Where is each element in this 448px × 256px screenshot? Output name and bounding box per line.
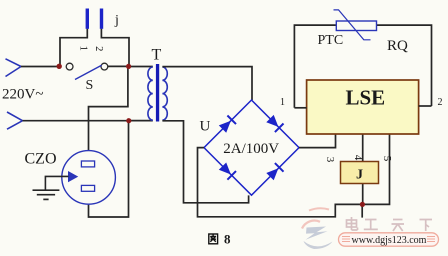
transformer T secondary coil xyxy=(162,67,167,120)
svg-text:LSE: LSE xyxy=(345,86,385,110)
watermark banner xyxy=(339,233,439,246)
switch S right terminal circle xyxy=(101,63,108,70)
wire PTC loop right xyxy=(377,25,432,106)
watermark char 天 xyxy=(392,220,405,232)
svg-text:RQ: RQ xyxy=(387,38,408,54)
svg-text:8: 8 xyxy=(224,232,231,247)
wire branch to socket top xyxy=(89,66,128,150)
wire LSE pin1 stub xyxy=(294,107,306,109)
ground bar 2 xyxy=(37,194,55,196)
svg-text:1: 1 xyxy=(280,97,285,108)
diode D2 xyxy=(266,115,278,127)
wire bridge left corner to bottom bus xyxy=(198,134,390,217)
node dot switch right junction xyxy=(126,64,131,69)
caption glyph 图 xyxy=(209,234,218,244)
node dot mains bottom xyxy=(126,118,131,123)
wire secondary top to bridge top xyxy=(162,67,252,100)
thermistor diagonal xyxy=(334,10,371,40)
watermark char 工 xyxy=(364,220,378,230)
svg-text:PTC: PTC xyxy=(318,33,344,48)
wire LSE pin2 stub xyxy=(419,105,432,107)
relay coil J box xyxy=(341,162,379,184)
wire socket bottom loop xyxy=(89,121,129,217)
svg-text:j: j xyxy=(114,13,119,28)
wire primary bottom to mains dot xyxy=(129,120,153,122)
node dot switch left xyxy=(57,64,62,69)
diode D1 xyxy=(219,121,231,133)
svg-text:J: J xyxy=(356,168,363,183)
svg-text:2: 2 xyxy=(438,97,443,108)
wire relay-contact loop left xyxy=(60,29,87,67)
ground bar 1 xyxy=(33,189,60,191)
wire bridge right corner to LSE pin3 xyxy=(299,134,336,148)
contact j right bar xyxy=(100,9,103,29)
wire mains bottom xyxy=(23,120,129,122)
watermark char 下 xyxy=(420,220,433,232)
socket slot bottom xyxy=(81,185,94,191)
diode D4 xyxy=(266,168,278,180)
bridge rectifier U diamond xyxy=(204,100,299,195)
svg-text:2A/100V: 2A/100V xyxy=(223,141,279,157)
terminal bottom-left input xyxy=(7,112,23,129)
socket left pin arrow xyxy=(69,172,78,182)
svg-text:3: 3 xyxy=(324,157,336,163)
watermark char 电 xyxy=(347,217,358,230)
transformer T primary coil xyxy=(148,67,153,120)
ground bar 3 xyxy=(43,198,48,200)
watermark swirl logo xyxy=(302,208,333,249)
transformer core xyxy=(156,64,159,122)
terminal top-left input xyxy=(6,59,22,77)
wire relay J to bus dot xyxy=(362,184,364,205)
wire stub below dot xyxy=(361,204,363,217)
svg-text:220V~: 220V~ xyxy=(2,87,43,103)
watermark banner deco right xyxy=(427,237,435,242)
watermark banner deco left xyxy=(342,237,350,242)
wire switch to junction xyxy=(108,65,129,67)
svg-text:5: 5 xyxy=(381,156,393,162)
wire LSE pin4 to relay J xyxy=(362,134,364,162)
wire secondary bottom to bridge bottom xyxy=(162,121,248,203)
wire PTC loop left xyxy=(294,25,336,108)
switch S blade xyxy=(75,65,102,79)
wire junction to primary top xyxy=(129,66,153,68)
svg-text:CZO: CZO xyxy=(25,151,57,168)
svg-text:www.dgjs123.com: www.dgjs123.com xyxy=(352,235,427,246)
ground wire xyxy=(45,176,68,189)
svg-text:S: S xyxy=(86,78,94,93)
socket CZO circle xyxy=(62,151,116,205)
wire relay-contact loop right xyxy=(101,29,129,67)
diode D3 xyxy=(219,163,231,175)
socket slot top xyxy=(81,161,94,167)
svg-text:U: U xyxy=(200,119,211,135)
contact j left bar xyxy=(86,9,89,29)
wire mains top xyxy=(21,66,60,68)
svg-text:T: T xyxy=(152,47,162,64)
svg-text:2: 2 xyxy=(93,46,104,51)
svg-text:1: 1 xyxy=(78,46,89,51)
thermistor RQ body xyxy=(336,21,376,31)
switch S left terminal circle xyxy=(66,63,73,70)
LSE module box xyxy=(307,80,419,134)
node dot relay bus xyxy=(360,202,365,207)
svg-text:4: 4 xyxy=(352,155,364,161)
